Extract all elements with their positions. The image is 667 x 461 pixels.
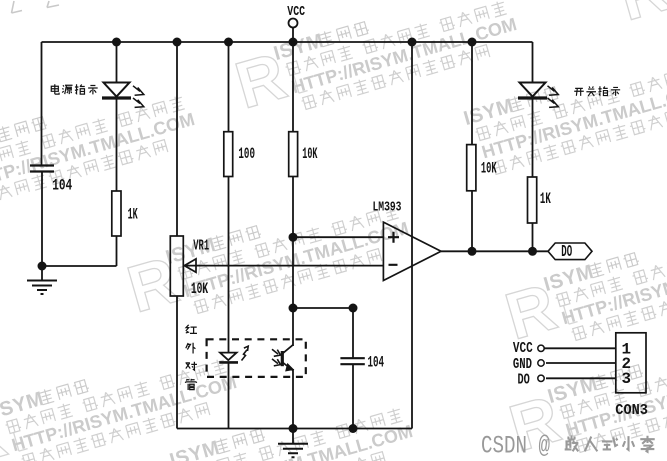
svg-text:10K: 10K xyxy=(191,280,208,298)
svg-text:CON3: CON3 xyxy=(615,402,648,419)
svg-text:104: 104 xyxy=(368,353,385,371)
svg-text:100: 100 xyxy=(238,145,255,163)
svg-text:104: 104 xyxy=(52,178,72,195)
svg-text:10K: 10K xyxy=(302,144,317,163)
svg-text:VCC: VCC xyxy=(513,340,533,357)
svg-text:VCC: VCC xyxy=(287,4,305,20)
svg-text:DO: DO xyxy=(518,371,531,388)
svg-text:3: 3 xyxy=(622,370,632,388)
svg-text:1K: 1K xyxy=(128,205,138,224)
svg-text:VR1: VR1 xyxy=(193,237,209,254)
svg-text:DO: DO xyxy=(561,242,572,261)
svg-text:LM393: LM393 xyxy=(373,199,402,215)
svg-text:CSDN @: CSDN @ xyxy=(481,431,550,460)
svg-text:10K: 10K xyxy=(481,159,497,178)
svg-text:1K: 1K xyxy=(540,189,551,207)
